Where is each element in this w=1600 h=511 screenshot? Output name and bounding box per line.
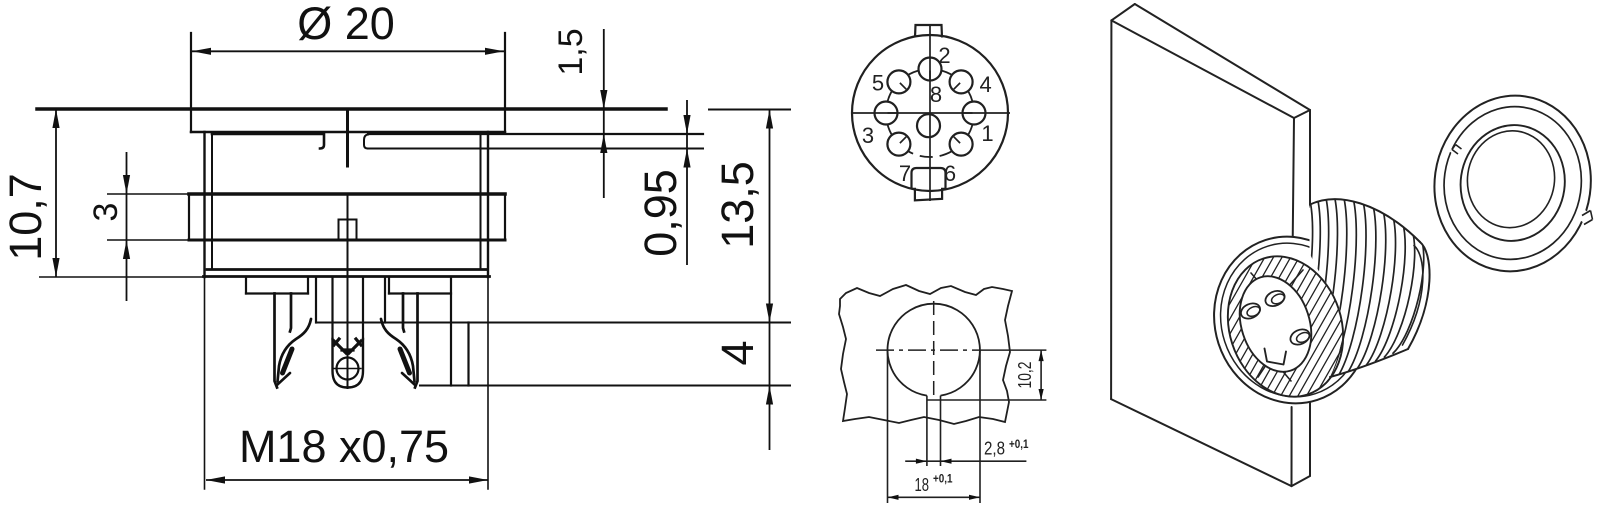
spanner notch left xyxy=(1450,143,1465,158)
pin layout diagram xyxy=(852,25,1011,201)
svg-text:M18 x0,75: M18 x0,75 xyxy=(239,421,449,472)
dim line Ø20 xyxy=(192,50,504,52)
svg-text:4: 4 xyxy=(979,72,991,97)
svg-text:3: 3 xyxy=(862,123,874,148)
svg-text:4: 4 xyxy=(712,340,763,365)
connector cross-section view xyxy=(37,33,790,489)
slot bottom / 10,2 ext xyxy=(927,399,1047,401)
dim 0,95 xyxy=(686,100,688,265)
svg-text:8: 8 xyxy=(930,82,942,107)
contact holes xyxy=(1263,288,1287,309)
insert center ribs xyxy=(315,277,317,323)
left solder terminal xyxy=(275,294,278,388)
jagged panel outline xyxy=(839,285,1012,424)
M18 extension lines xyxy=(204,277,206,489)
barrel walls xyxy=(203,132,205,277)
pin 3 xyxy=(875,102,898,125)
mounting panel xyxy=(1111,4,1310,486)
panel cutout drawing xyxy=(839,285,1046,503)
barrel bottom outline xyxy=(1330,349,1408,377)
pin 8 center xyxy=(917,114,940,137)
nut key notch xyxy=(339,219,357,221)
horizontal centerline xyxy=(876,349,990,351)
cutout circle xyxy=(888,304,980,396)
pin 7 xyxy=(887,133,910,156)
svg-text:1,5: 1,5 xyxy=(552,28,590,75)
svg-text:5: 5 xyxy=(872,70,884,95)
dim 18 ext xyxy=(887,350,889,503)
right bent lug wing xyxy=(381,319,415,385)
svg-text:10,2: 10,2 xyxy=(1014,362,1035,389)
dim 2,8 xyxy=(905,460,1026,462)
cavity chevrons xyxy=(1251,270,1303,381)
center divider xyxy=(346,111,349,166)
center solder terminal with eyelet xyxy=(331,277,333,339)
arrowheads xyxy=(52,48,773,484)
barrel top outline xyxy=(1302,199,1420,242)
dim M18 xyxy=(206,479,488,481)
vertical centerline xyxy=(933,301,935,396)
svg-text:0,95: 0,95 xyxy=(635,169,686,257)
svg-text:2: 2 xyxy=(938,43,950,68)
connector flange bezel xyxy=(1193,216,1390,423)
svg-text:+0,1: +0,1 xyxy=(1009,439,1029,451)
barrel end cap xyxy=(1408,242,1430,349)
spanner notch right xyxy=(1578,210,1594,226)
shell bottom plate xyxy=(207,268,486,271)
slot sides xyxy=(926,396,928,466)
flange body xyxy=(191,131,505,134)
svg-text:13,5: 13,5 xyxy=(712,161,763,249)
hex nut band xyxy=(189,192,505,196)
shell outer circle xyxy=(852,35,1008,191)
dim 10,7 xyxy=(39,276,203,278)
svg-text:3: 3 xyxy=(87,203,125,222)
vertical centerline xyxy=(929,25,931,201)
pitch circle (dashed) xyxy=(968,91,972,101)
pin 5 xyxy=(887,70,910,93)
svg-text:18: 18 xyxy=(915,474,930,495)
threaded barrel xyxy=(1270,192,1430,397)
svg-text:2,8: 2,8 xyxy=(984,438,1005,459)
svg-text:6: 6 xyxy=(944,161,956,186)
dim 13,5 / 4 xyxy=(769,110,771,451)
terminal crimp hatching xyxy=(334,339,361,353)
panel left edge xyxy=(1110,20,1112,399)
lock ring nut xyxy=(1423,85,1600,281)
left bent lug wing xyxy=(278,319,312,385)
pin 4 xyxy=(950,70,973,93)
bottom key tab xyxy=(912,168,946,200)
flange top line xyxy=(37,107,666,111)
horizontal centerline xyxy=(852,112,1011,114)
insert left block xyxy=(245,277,247,294)
socket face xyxy=(1228,267,1323,381)
svg-text:10,7: 10,7 xyxy=(0,173,51,261)
svg-text:Ø 20: Ø 20 xyxy=(297,0,395,49)
bezel inner edge xyxy=(1210,241,1361,412)
svg-text:1: 1 xyxy=(981,121,993,146)
svg-text:+0,1: +0,1 xyxy=(933,474,953,486)
lug bottom edge line xyxy=(420,385,790,387)
insert bottom edge xyxy=(316,322,790,324)
center axis line xyxy=(347,194,349,388)
dim 3 xyxy=(126,152,128,301)
pin 6 xyxy=(950,133,973,156)
panel top edges xyxy=(1135,4,1310,110)
panel right edges (interrupted by connector) xyxy=(1293,118,1294,240)
dim 1,5 xyxy=(603,29,605,198)
svg-text:7: 7 xyxy=(899,161,911,186)
panel bottom edges xyxy=(1111,399,1291,486)
right solder terminal xyxy=(403,294,404,332)
right angled lug xyxy=(450,277,452,386)
pin 2 xyxy=(919,58,942,81)
left socket lip with hook xyxy=(212,134,324,149)
pin 1 xyxy=(963,102,986,125)
face keyway xyxy=(1262,347,1285,366)
right socket lip xyxy=(364,135,368,149)
dim 10,2 xyxy=(1040,350,1042,400)
top key tab xyxy=(915,25,942,38)
dim 18 line xyxy=(888,496,981,498)
insert right block xyxy=(388,277,390,294)
